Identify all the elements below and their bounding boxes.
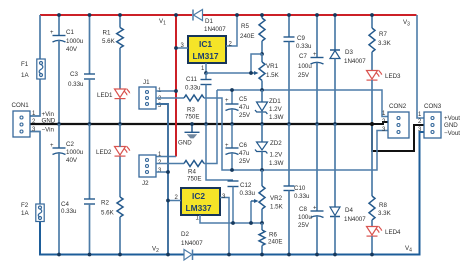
LED2 <box>115 146 131 156</box>
wire IC1 pin3 input stub <box>176 47 188 49</box>
svg-text:+: + <box>50 143 54 149</box>
node C1 top <box>57 13 61 17</box>
svg-text:R4: R4 <box>188 169 196 176</box>
svg-text:5.6K: 5.6K <box>101 210 115 217</box>
node V1 <box>174 13 178 17</box>
wire LED3 to gnd <box>371 80 373 124</box>
svg-text:C11: C11 <box>186 76 197 83</box>
node C8 bottom rail <box>315 253 319 257</box>
svg-text:R5: R5 <box>241 23 249 30</box>
resistor R2 5.6K <box>101 197 123 255</box>
node C5 top <box>230 88 234 92</box>
node C3 bottom <box>88 122 92 126</box>
node C3 top <box>88 13 92 17</box>
jumper J2 <box>139 155 156 177</box>
svg-text:VR1: VR1 <box>266 63 279 70</box>
op-amp IC2 LM337 regulator <box>181 188 220 215</box>
svg-text:0.33u: 0.33u <box>185 85 201 92</box>
svg-text:ZD2: ZD2 <box>270 140 282 147</box>
capacitor C8 100u 25V <box>298 124 324 255</box>
node C9 top rail <box>287 13 291 17</box>
svg-text:−Vout: −Vout <box>444 130 460 137</box>
svg-text:VR2: VR2 <box>270 195 283 202</box>
svg-text:J1: J1 <box>143 79 150 86</box>
node R1 top <box>118 13 122 17</box>
connector CON2 <box>388 112 409 138</box>
wire J2 pin2 to R4 <box>156 163 184 165</box>
LED3 <box>367 70 383 80</box>
fuse F1 <box>37 59 45 79</box>
wire LED2 to R2 <box>119 157 121 198</box>
node IC2 out on bottom rail <box>227 253 231 257</box>
svg-text:LM317: LM317 <box>193 51 219 61</box>
node D4 bottom rail <box>333 253 337 257</box>
node gnd symbol junction <box>190 122 194 126</box>
svg-text:C5: C5 <box>239 96 247 103</box>
fuse F2 <box>36 204 44 222</box>
LED1 <box>115 89 131 99</box>
wire ground rail extension to CON3 pin2 (black) <box>372 124 424 151</box>
svg-text:C2: C2 <box>66 141 74 148</box>
capacitor C9 0.33u <box>284 15 313 124</box>
svg-text:47u: 47u <box>239 104 250 111</box>
resistor R5 240E <box>240 15 265 54</box>
node VR2 bottom / R6 top <box>260 221 264 225</box>
potentiometer VR2 1.5K <box>251 170 284 223</box>
svg-text:IC2: IC2 <box>192 191 205 201</box>
svg-text:1000u: 1000u <box>66 38 84 45</box>
svg-text:47u: 47u <box>239 150 250 157</box>
svg-text:LED1: LED1 <box>97 92 113 99</box>
resistor R7 3.3K <box>369 15 392 70</box>
svg-text:D3: D3 <box>345 49 353 56</box>
wire J1 pin1 to red line <box>156 90 176 92</box>
svg-text:C8: C8 <box>299 206 307 213</box>
node C5 gnd <box>230 122 234 126</box>
svg-text:+Vout: +Vout <box>444 115 460 122</box>
svg-text:R2: R2 <box>101 200 109 207</box>
svg-text:25V: 25V <box>298 222 310 229</box>
svg-text:1.5K: 1.5K <box>266 72 280 79</box>
diode D2 1N4007 (inline on bottom rail, cathode right) <box>181 231 203 260</box>
wire node A horizontal (VR1 bottom / ZD1 / CON2 pin1) <box>217 90 388 117</box>
wire R3 right end down to node B wire <box>204 98 233 170</box>
node J1 pin1 red junction <box>174 89 178 93</box>
node C2 bottom rail <box>57 253 61 257</box>
node R5 bottom / VR1 top <box>260 52 264 56</box>
node C4 bottom rail <box>88 253 92 257</box>
node LED4 bottom rail <box>370 253 374 257</box>
svg-text:25V: 25V <box>239 158 251 165</box>
resistor R3 750E <box>184 95 204 121</box>
wire J2 pin3 stub <box>156 171 168 173</box>
svg-text:R3: R3 <box>187 107 195 114</box>
node IC1 pin3 on red <box>174 46 178 50</box>
capacitor C10 0.33u <box>284 124 311 255</box>
svg-text:100u: 100u <box>298 63 312 70</box>
svg-text:0.33u: 0.33u <box>240 190 256 197</box>
node C12 bottom to adj wire <box>231 221 235 225</box>
svg-text:D4: D4 <box>345 207 353 214</box>
wire top positive rail (red) <box>40 14 417 16</box>
zener ZD2 1.2V 1.3W <box>255 124 284 170</box>
svg-text:1.2V: 1.2V <box>269 106 283 113</box>
capacitor C4 0.33u <box>61 124 95 255</box>
node IC1 adj <box>204 71 208 75</box>
svg-text:1N4007: 1N4007 <box>344 58 366 65</box>
op-amp IC1 LM317 regulator <box>188 36 226 63</box>
node C9 gnd <box>287 122 291 126</box>
svg-text:ZD1: ZD1 <box>269 98 281 105</box>
node VR1 wiper / adj <box>249 71 253 75</box>
jumper J1 <box>139 87 156 109</box>
resistor R8 3.3K <box>369 124 392 226</box>
LED4 <box>367 226 383 236</box>
wire R4 right end up to node A wire <box>204 90 217 164</box>
svg-text:1A: 1A <box>21 72 29 79</box>
wire J1 pin2 to R3 <box>156 97 184 99</box>
wire LED4 to bottom rail <box>371 236 373 255</box>
svg-text:750E: 750E <box>185 114 199 121</box>
capacitor C2 1000u 40V <box>50 124 84 255</box>
node gnd rail end <box>370 122 374 126</box>
connector CON3 <box>424 112 441 138</box>
svg-text:3.3K: 3.3K <box>378 210 392 217</box>
node ZD1 gnd <box>260 122 264 126</box>
svg-text:IC1: IC1 <box>199 39 212 49</box>
svg-text:F1: F1 <box>21 61 29 68</box>
wire VR2 wiper loop <box>250 201 252 223</box>
capacitor C3 0.33u <box>68 15 95 124</box>
ground symbol <box>178 124 200 147</box>
node J2 pin3 junction <box>166 170 170 174</box>
node D3 top rail <box>333 13 337 17</box>
svg-text:F2: F2 <box>21 202 29 209</box>
svg-text:0.33u: 0.33u <box>68 81 84 88</box>
svg-text:CON1: CON1 <box>12 102 30 109</box>
wire IC2 pin1 adj stub <box>200 215 262 223</box>
svg-text:LED4: LED4 <box>385 229 401 236</box>
capacitor C11 0.33u <box>185 73 212 124</box>
zener ZD1 1.2V 1.3W <box>255 90 284 124</box>
svg-text:1.2V: 1.2V <box>270 152 284 159</box>
svg-text:GND: GND <box>444 122 458 129</box>
wire J1 pin3 to -Vin column <box>156 104 168 255</box>
wire J2 pin1 stub <box>156 156 176 158</box>
node R6 bottom rail <box>260 253 264 257</box>
diode D1 1N4007 (inline on top rail, cathode left) <box>192 10 226 34</box>
svg-text:1N4007: 1N4007 <box>181 240 203 247</box>
svg-text:C6: C6 <box>239 142 247 149</box>
node LED1 gnd <box>118 122 122 126</box>
svg-text:240E: 240E <box>268 239 282 246</box>
wire node B horizontal (ZD2 / VR2 top / CON2 pin3) <box>233 131 388 171</box>
capacitor C6 47u 25V <box>225 124 251 170</box>
svg-text:1.3W: 1.3W <box>269 160 284 167</box>
svg-text:0.33u: 0.33u <box>61 208 77 215</box>
svg-text:0.33u: 0.33u <box>296 43 312 50</box>
resistor R1 5.6K <box>102 15 123 89</box>
wire IC2 pin2 input stub <box>168 200 181 202</box>
svg-text:40V: 40V <box>66 46 78 53</box>
wire gnd to LED2 <box>119 124 121 147</box>
node R2 bottom rail <box>118 253 122 257</box>
svg-text:3.3K: 3.3K <box>378 40 392 47</box>
wire -Vin from CON1 pin3 to F2 <box>30 132 40 205</box>
wire V1 red drop to J1 pin1 and J2 pin1 <box>175 15 177 157</box>
svg-text:CON3: CON3 <box>424 103 442 110</box>
svg-text:1A: 1A <box>21 210 29 217</box>
node C10 bottom rail <box>287 253 291 257</box>
svg-text:C7: C7 <box>299 53 307 60</box>
wire LED1 to gnd <box>119 99 121 124</box>
svg-text:GND: GND <box>178 140 192 147</box>
svg-text:+: + <box>313 52 317 58</box>
capacitor C1 1000u 40V <box>50 15 84 124</box>
svg-text:D2: D2 <box>181 231 189 238</box>
svg-text:240E: 240E <box>240 33 254 40</box>
capacitor C7 100u 25V <box>298 15 324 124</box>
potentiometer VR1 1.5K <box>251 54 280 90</box>
svg-text:25V: 25V <box>239 112 251 119</box>
svg-text:40V: 40V <box>66 157 78 164</box>
svg-text:J2: J2 <box>142 180 149 187</box>
node IC2 pin2 junction <box>166 199 170 203</box>
diode D4 1N4007 (cathode down to -out rail) <box>330 124 366 255</box>
svg-text:+: + <box>313 206 317 212</box>
wire IC2 pin3 output to bottom rail <box>220 198 229 255</box>
svg-text:LM337: LM337 <box>186 203 212 213</box>
node D3 gnd <box>333 122 337 126</box>
node VR1 bottom <box>260 88 264 92</box>
node LED3 gnd <box>370 122 374 126</box>
svg-text:1.5K: 1.5K <box>270 204 284 211</box>
wire bottom negative rail <box>40 221 184 255</box>
svg-text:D1: D1 <box>205 18 213 25</box>
wire V3 drop from rail end to CON3 pin1 <box>417 15 424 118</box>
node C7 gnd <box>315 122 319 126</box>
svg-text:1000u: 1000u <box>66 149 84 156</box>
node R7 top rail <box>370 13 374 17</box>
wire adj node to VR1 wiper <box>206 72 251 74</box>
node C11 gnd <box>204 122 208 126</box>
svg-text:C1: C1 <box>66 29 74 36</box>
wire VR1 wiper loop to R5 bottom <box>251 54 262 73</box>
node R5 top rail <box>260 13 264 17</box>
svg-text:C9: C9 <box>297 35 305 42</box>
capacitor C12 0.33u <box>206 124 256 223</box>
svg-text:C3: C3 <box>70 71 78 78</box>
svg-text:CON2: CON2 <box>389 103 407 110</box>
diode D3 1N4007 (cathode up to +out rail) <box>330 15 366 124</box>
resistor R6 240E <box>259 223 282 255</box>
svg-text:1.3W: 1.3W <box>269 114 284 121</box>
svg-text:1N4007: 1N4007 <box>204 26 226 33</box>
svg-text:LED2: LED2 <box>96 149 112 156</box>
svg-text:1N4007: 1N4007 <box>344 216 366 223</box>
svg-text:+: + <box>225 98 229 104</box>
svg-text:5.6K: 5.6K <box>102 38 116 45</box>
node C1 bottom on gnd <box>57 122 61 126</box>
wire left input drop from rail to F1 and CON1 pin1 <box>39 15 41 59</box>
svg-text:C4: C4 <box>61 201 69 208</box>
svg-text:C12: C12 <box>240 182 252 189</box>
svg-text:LED3: LED3 <box>385 73 401 80</box>
node C7 top rail <box>315 13 319 17</box>
svg-text:R8: R8 <box>379 202 387 209</box>
node IC1 out on rail <box>235 13 239 17</box>
svg-text:R1: R1 <box>103 30 111 37</box>
svg-text:100u: 100u <box>298 214 312 221</box>
svg-text:R6: R6 <box>269 232 277 239</box>
node VR2 wiper junction <box>249 221 253 225</box>
svg-text:+: + <box>225 143 229 149</box>
wire ground rail (black) from CON1 pin2 <box>30 123 372 125</box>
resistor R4 750E <box>184 161 204 183</box>
connector CON1 <box>13 111 30 137</box>
node J pin3 column bottom rail <box>166 253 170 257</box>
svg-text:−Vin: −Vin <box>42 127 55 134</box>
svg-text:25V: 25V <box>298 72 310 79</box>
wire IC1 pin1 adj stub <box>205 63 207 73</box>
svg-text:GND: GND <box>42 118 56 125</box>
node ZD2 bottom / VR2 top <box>260 168 264 172</box>
wire ground spur to CON2 pin2 (black) <box>372 122 388 124</box>
svg-text:+: + <box>50 30 54 36</box>
node C6 bottom <box>230 168 234 172</box>
svg-text:C10: C10 <box>294 185 306 192</box>
svg-text:750E: 750E <box>187 176 201 183</box>
svg-text:0.33u: 0.33u <box>294 193 310 200</box>
capacitor C5 47u 25V <box>225 90 251 124</box>
wire IC1 pin2 output to top rail <box>226 15 237 46</box>
svg-text:R7: R7 <box>379 31 387 38</box>
